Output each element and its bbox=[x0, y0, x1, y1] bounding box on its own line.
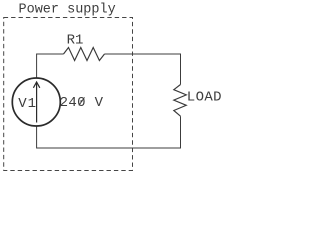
slash of zero in 240 bbox=[79, 97, 85, 105]
wire from R1 to load branch bbox=[105, 54, 181, 85]
voltage source V1 circle bbox=[12, 78, 60, 126]
wire from LOAD to bottom and back to V1 bbox=[37, 116, 181, 148]
voltage source arrow bbox=[36, 83, 38, 123]
wire from V1 top to R1 bbox=[37, 54, 64, 78]
svg-text:V1: V1 bbox=[18, 96, 36, 112]
svg-text:LOAD: LOAD bbox=[187, 90, 222, 106]
svg-text:240 V: 240 V bbox=[60, 95, 104, 111]
resistor R1 bbox=[64, 48, 105, 61]
svg-text:R1: R1 bbox=[67, 33, 84, 49]
resistor LOAD bbox=[174, 85, 187, 117]
enclosure dashed box (Power supply) bbox=[4, 18, 133, 171]
svg-text:Power supply: Power supply bbox=[19, 2, 116, 17]
